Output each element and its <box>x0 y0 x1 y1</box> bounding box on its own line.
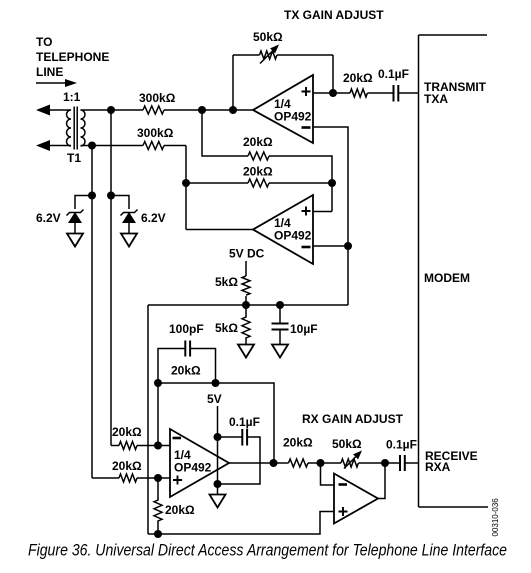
node 158,478 <box>154 474 162 482</box>
wire 5V DC stub <box>245 261 247 276</box>
node 385,463 <box>381 459 389 467</box>
wire U1b plus input <box>313 211 332 213</box>
svg-text:300kΩ: 300kΩ <box>139 91 176 105</box>
node top secondary <box>107 106 115 114</box>
wire zener rail left x92 <box>91 146 93 479</box>
op-amp U1d (pointing right) <box>334 474 378 524</box>
ground below D2 <box>121 234 137 247</box>
wire to opamp output node <box>164 109 253 111</box>
wire ground return y534 <box>148 512 334 535</box>
svg-text:20kΩ: 20kΩ <box>112 425 142 439</box>
svg-text:20kΩ: 20kΩ <box>243 165 273 179</box>
node 332,183 <box>328 179 336 187</box>
node A 202,110 <box>198 106 206 114</box>
svg-text:5kΩ: 5kΩ <box>215 321 238 335</box>
svg-text:300kΩ: 300kΩ <box>137 126 174 140</box>
svg-text:50kΩ: 50kΩ <box>253 30 283 44</box>
zener diode D1 6.2V <box>67 210 84 234</box>
svg-text:LINE: LINE <box>36 65 63 79</box>
wire R12 to pot <box>308 462 341 464</box>
resistor R11 20k (vertical) <box>154 478 162 530</box>
ground below D1 <box>67 234 83 247</box>
ground below C2 <box>272 345 288 358</box>
resistor R4 20k <box>248 152 269 160</box>
modem interface line <box>419 35 489 507</box>
svg-text:TELEPHONE: TELEPHONE <box>36 50 109 64</box>
wire U1a plus input <box>313 92 333 94</box>
capacitor C3 100pF with box top wire <box>158 341 216 384</box>
capacitor C2 10uF <box>272 305 289 344</box>
label TO TELEPHONE LINE <box>36 35 109 79</box>
svg-text:OP492: OP492 <box>174 461 212 475</box>
wire zener rail right x111 <box>110 110 112 446</box>
wire C5 to modem <box>405 462 419 464</box>
wire left rail x148 <box>147 305 149 534</box>
wire feedback top <box>233 54 260 56</box>
plus pin U1c <box>173 476 182 485</box>
op-amp U1c 1/4 OP492 (pointing right) <box>170 429 229 497</box>
wire zener stub right <box>111 196 129 210</box>
resistor R2 300k <box>143 142 164 150</box>
svg-text:1:1: 1:1 <box>63 90 81 104</box>
node 158,534 <box>154 530 162 538</box>
wire R4 to vertical x332 <box>269 156 332 212</box>
svg-text:50kΩ: 50kΩ <box>332 437 362 451</box>
wire R5 to node <box>269 182 332 184</box>
wire R6 to rail <box>245 296 247 305</box>
wire 20k input lower from node 186,183 <box>186 182 248 184</box>
node 158,445.5 <box>154 442 162 450</box>
wire R10 to opamp <box>137 477 170 479</box>
node 158,383 <box>154 379 162 387</box>
svg-text:RX GAIN ADJUST: RX GAIN ADJUST <box>302 412 404 426</box>
wire R3 to C1 <box>368 92 394 94</box>
svg-text:TO: TO <box>36 35 52 49</box>
node bottom secondary <box>88 142 96 150</box>
node 217.5,484 <box>214 480 222 488</box>
svg-text:TXA: TXA <box>424 92 448 106</box>
plus pin U1d <box>339 507 348 516</box>
wire zener stub left <box>75 196 92 210</box>
node B 233,110 <box>229 106 237 114</box>
node 215.5,383 <box>212 379 220 387</box>
node 186,183 <box>182 179 190 187</box>
svg-text:20kΩ: 20kΩ <box>112 459 142 473</box>
node 217.5,437 <box>214 433 222 441</box>
node 348,246 <box>344 242 352 250</box>
svg-text:00310-036: 00310-036 <box>491 498 500 537</box>
wire feedback left vertical <box>232 55 234 110</box>
wire vertical x186 <box>185 146 187 230</box>
resistor R6 5k (vertical) <box>242 276 250 295</box>
svg-text:20kΩ: 20kΩ <box>243 135 273 149</box>
potentiometer P1 50k <box>260 45 280 64</box>
wire 5V supply vertical <box>217 406 219 494</box>
wire R2 to vertical <box>164 145 186 147</box>
plus pin U1a <box>302 87 311 96</box>
resistor R12 20k <box>289 459 308 467</box>
svg-text:20kΩ: 20kΩ <box>165 503 195 517</box>
svg-text:0.1µF: 0.1µF <box>378 67 409 81</box>
node 246,305 <box>242 301 250 309</box>
wire U1b output <box>186 229 253 231</box>
svg-text:RXA: RXA <box>425 460 451 474</box>
resistor R9 20k <box>119 442 137 450</box>
svg-text:20kΩ: 20kΩ <box>283 436 313 450</box>
svg-text:20kΩ: 20kΩ <box>343 71 373 85</box>
ground below R7 <box>238 345 254 358</box>
wire secondary top <box>81 109 144 111</box>
wire U1b minus input <box>313 245 348 247</box>
wire bias rail y305 <box>148 304 348 306</box>
capacitor C1 0.1uF <box>394 85 399 102</box>
wire pot to cap <box>359 462 401 464</box>
wire feedback right vertical <box>332 55 334 93</box>
minus pin U1b <box>302 246 311 249</box>
svg-text:20kΩ: 20kΩ <box>171 364 201 378</box>
node 92,195.5 <box>88 192 96 200</box>
resistor R1 300k <box>143 106 164 114</box>
minus pin U1a <box>302 126 311 129</box>
minus pin U1d <box>339 483 348 486</box>
wire R9 to opamp <box>137 445 170 447</box>
wire U1c output <box>229 462 289 464</box>
svg-text:5kΩ: 5kΩ <box>215 275 238 289</box>
svg-text:0.1µF: 0.1µF <box>386 438 417 452</box>
wire primary bottom with arrowhead <box>36 140 71 151</box>
svg-text:OP492: OP492 <box>274 229 312 243</box>
svg-text:T1: T1 <box>67 151 81 165</box>
node 320.5,463 <box>317 459 325 467</box>
resistor R3 20k <box>350 89 367 97</box>
svg-text:TX GAIN ADJUST: TX GAIN ADJUST <box>284 8 384 22</box>
resistor R7 5k (vertical) <box>242 305 250 346</box>
wire primary top with arrowhead <box>36 105 71 116</box>
wire RX plus input from rail x92 <box>92 477 119 479</box>
wire TXA from node <box>333 92 350 94</box>
svg-text:MODEM: MODEM <box>424 271 470 285</box>
wire U1a minus input <box>313 127 348 305</box>
arrow to telephone line <box>36 79 77 87</box>
node 273.5,463 <box>270 459 278 467</box>
plus pin U1b <box>302 207 311 216</box>
wire feedback bottom y383 <box>158 383 274 463</box>
resistor R5 20k <box>248 179 269 187</box>
wire feedback top right <box>277 54 333 56</box>
transformer T1 <box>67 107 86 150</box>
svg-text:0.1µF: 0.1µF <box>229 415 260 429</box>
svg-text:5V: 5V <box>207 392 222 406</box>
node 280,305 <box>276 301 284 309</box>
svg-text:5V DC: 5V DC <box>229 247 265 261</box>
resistor R10 20k <box>119 474 137 482</box>
svg-text:6.2V: 6.2V <box>141 211 166 225</box>
svg-text:10µF: 10µF <box>290 322 318 336</box>
svg-text:100pF: 100pF <box>169 322 204 336</box>
wire C1 to modem <box>399 92 419 94</box>
wire secondary bottom <box>81 145 144 147</box>
op-amp U1b 1/4 OP492 (pointing left) <box>253 195 313 264</box>
wire 20k input upper from node A <box>202 110 248 156</box>
wire node to minus input node <box>157 383 159 446</box>
wire U1d output <box>378 463 385 499</box>
minus pin U1c <box>173 437 182 440</box>
svg-text:OP492: OP492 <box>274 110 312 124</box>
ground below 5V rail <box>210 495 226 508</box>
wire RX minus input from rail x111 <box>111 445 119 447</box>
node 333,93 <box>329 89 337 97</box>
op-amp U1a 1/4 OP492 (pointing left) <box>253 75 313 143</box>
svg-text:6.2V: 6.2V <box>36 211 61 225</box>
capacitor C5 0.1uF <box>400 455 405 471</box>
svg-text:Figure 36. Universal Direct Ac: Figure 36. Universal Direct Access Arran… <box>28 541 507 560</box>
node 111,195.5 <box>107 192 115 200</box>
wire U1d minus input <box>321 463 335 485</box>
zener diode D2 6.2V <box>121 210 138 234</box>
potentiometer P2 50k <box>341 451 362 469</box>
capacitor C4 0.1uF bypass <box>218 429 261 484</box>
